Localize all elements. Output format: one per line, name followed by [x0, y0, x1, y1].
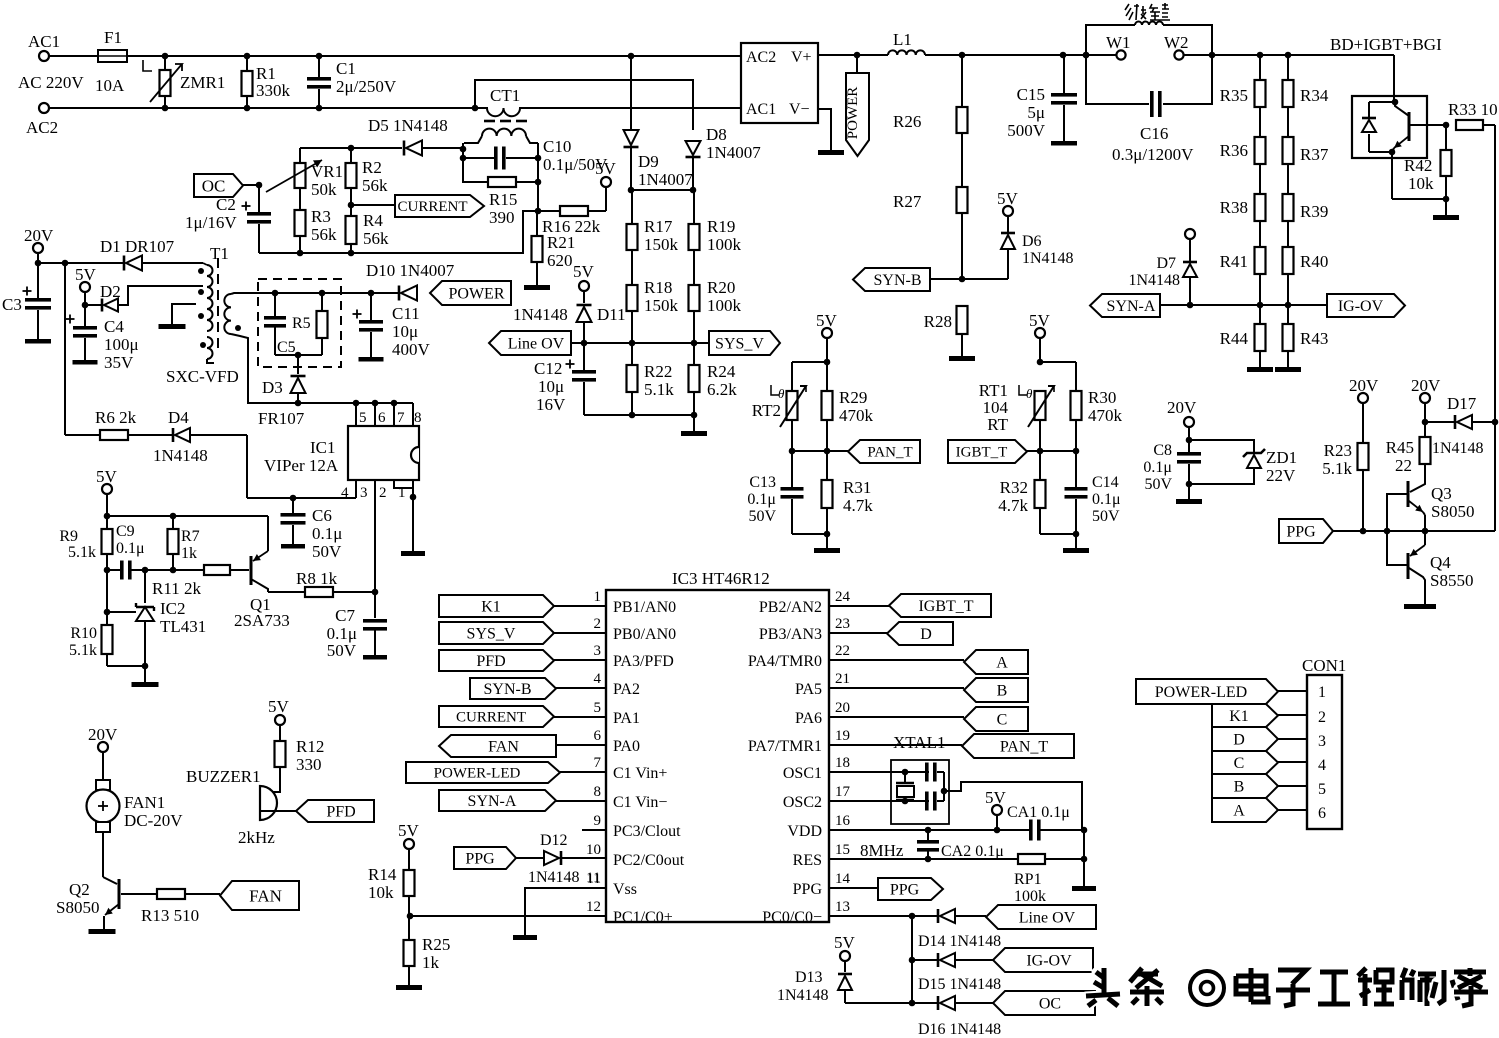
net label SYN-A	[1090, 294, 1160, 317]
resistor R31 4.7k	[822, 451, 874, 534]
resistor R32 4.7k	[998, 451, 1045, 534]
net label IGBT_T (RT1)	[948, 440, 1027, 463]
net label CURRENT	[351, 195, 484, 217]
svg-text:5V: 5V	[1029, 311, 1051, 330]
wire RT2 top	[792, 359, 830, 391]
net label POWER	[430, 281, 511, 305]
svg-text:5V: 5V	[595, 159, 617, 178]
capacitor C8 0.1u 50V	[1143, 437, 1201, 493]
net label D (CON1)	[1212, 727, 1307, 751]
resistor R26	[893, 55, 968, 133]
svg-text:D1 DR107: D1 DR107	[100, 237, 175, 256]
svg-text:C6: C6	[312, 506, 332, 525]
svg-text:D14 1N4148: D14 1N4148	[918, 933, 1001, 950]
svg-text:R23: R23	[1324, 441, 1352, 460]
resistor R33 10	[1443, 100, 1498, 130]
resistor R13 510	[121, 889, 220, 925]
net label Line OV (D14)	[986, 905, 1096, 929]
resistor R11 2k	[145, 565, 249, 598]
svg-text:Line OV: Line OV	[1019, 909, 1076, 926]
svg-text:R12: R12	[296, 737, 324, 756]
svg-text:C1 Vin−: C1 Vin−	[613, 794, 667, 811]
svg-text:W2: W2	[1164, 33, 1189, 52]
svg-text:POWER: POWER	[845, 87, 861, 140]
resistor R40	[1283, 221, 1329, 305]
svg-text:10μ: 10μ	[392, 322, 418, 341]
svg-text:PA4/TMR0: PA4/TMR0	[748, 653, 822, 670]
transformer T1 secondary	[224, 293, 248, 403]
wire PPG row	[1333, 125, 1495, 534]
capacitor C5	[264, 293, 296, 356]
svg-text:CA2 0.1μ: CA2 0.1μ	[941, 843, 1004, 860]
svg-text:R19: R19	[707, 217, 735, 236]
svg-text:SYS_V: SYS_V	[715, 335, 764, 352]
svg-text:C13: C13	[749, 474, 776, 491]
net label SYN-B (R28)	[853, 268, 930, 291]
svg-text:OC: OC	[1039, 995, 1061, 1012]
ground (Q2)	[89, 929, 116, 934]
svg-text:R37: R37	[1300, 145, 1329, 164]
svg-text:50V: 50V	[748, 508, 776, 525]
svg-text:330k: 330k	[256, 81, 291, 100]
svg-text:C2: C2	[216, 195, 236, 214]
wire RT1 bottom	[1040, 531, 1079, 548]
wire SYN-A row	[1160, 302, 1327, 309]
ground (R44)	[1247, 367, 1273, 372]
svg-text:R3: R3	[311, 207, 331, 226]
resistor R3 56k	[295, 207, 338, 253]
wire RT2 bottom	[792, 531, 830, 548]
svg-text:4: 4	[1318, 757, 1326, 774]
svg-text:R7: R7	[181, 528, 200, 545]
svg-text:PA1: PA1	[613, 710, 640, 727]
resistor R24 6.2k	[689, 340, 738, 415]
svg-text:RP1: RP1	[1014, 871, 1042, 888]
svg-text:D: D	[920, 626, 932, 643]
svg-text:PA7/TMR1: PA7/TMR1	[748, 738, 822, 755]
ground (R28)	[949, 356, 975, 361]
svg-text:16: 16	[835, 813, 851, 829]
svg-text:PC0/C0−: PC0/C0−	[762, 909, 822, 926]
ground (R21)	[524, 285, 550, 290]
svg-text:R42: R42	[1404, 156, 1432, 175]
svg-text:PB3/AN3: PB3/AN3	[759, 626, 822, 643]
svg-text:4.7k: 4.7k	[998, 496, 1028, 515]
svg-text:22V: 22V	[1266, 466, 1296, 485]
terminal W2	[1164, 33, 1189, 60]
svg-text:AC1: AC1	[28, 32, 60, 51]
svg-text:PA6: PA6	[795, 710, 822, 727]
net label POWER (V+)	[845, 52, 869, 156]
varistor ZMR1	[143, 56, 225, 108]
svg-text:2: 2	[594, 616, 602, 632]
wire rail to IGBT	[1212, 52, 1394, 96]
resistor R7 1k	[168, 516, 200, 573]
svg-text:D9: D9	[638, 152, 659, 171]
svg-text:3: 3	[594, 643, 602, 659]
resistor R43	[1283, 302, 1329, 367]
svg-text:XTAL1: XTAL1	[893, 733, 945, 752]
svg-text:D10 1N4007: D10 1N4007	[366, 261, 455, 280]
buzzer BUZZER1 2kHz	[186, 767, 296, 847]
capacitor C9 0.1u	[104, 523, 149, 580]
svg-text:D15 1N4148: D15 1N4148	[918, 976, 1001, 993]
IC3 right pin names	[748, 599, 823, 926]
ground (C8)	[1176, 499, 1202, 504]
wire 5V row	[104, 513, 268, 520]
svg-text:4.7k: 4.7k	[843, 496, 873, 515]
svg-text:22: 22	[1395, 456, 1412, 475]
heating coil (xianpan) box	[1083, 22, 1216, 105]
wire Line OV row	[571, 340, 709, 347]
svg-text:5V: 5V	[834, 933, 856, 952]
terminal 20V (FAN1)	[88, 725, 118, 782]
wire AC2 lower rail	[49, 105, 741, 112]
diode D6 1N4148	[1001, 216, 1074, 267]
svg-text:PA3/PFD: PA3/PFD	[613, 653, 674, 670]
wire AC1 top rail	[49, 53, 741, 60]
svg-text:SYN-A: SYN-A	[1107, 298, 1156, 315]
snubber dashed box	[258, 279, 341, 367]
svg-text:8MHz: 8MHz	[860, 841, 904, 860]
diode D13 1N4148	[777, 969, 912, 1004]
svg-text:R40: R40	[1300, 252, 1328, 271]
terminal 20V (R45)	[1411, 376, 1441, 422]
resistor R44	[1220, 302, 1266, 367]
wire CT1 secondary left rail	[460, 143, 467, 183]
svg-text:0.1μ: 0.1μ	[116, 540, 145, 557]
svg-text:150k: 150k	[644, 235, 679, 254]
terminal W1	[1106, 33, 1131, 60]
svg-text:R26: R26	[893, 112, 921, 131]
net label IGBT_T (pin24)	[829, 594, 991, 617]
svg-text:SYN-B: SYN-B	[483, 681, 531, 698]
svg-text:BUZZER1: BUZZER1	[186, 767, 261, 786]
svg-text:100μ: 100μ	[104, 335, 139, 354]
svg-text:VR1: VR1	[311, 162, 343, 181]
svg-text:PAN_T: PAN_T	[1000, 738, 1049, 755]
resistor R16 22k	[538, 187, 606, 236]
svg-text:VIPer 12A: VIPer 12A	[264, 456, 339, 475]
svg-text:13: 13	[835, 899, 850, 915]
svg-text:S8050: S8050	[56, 898, 99, 917]
svg-text:PA5: PA5	[795, 681, 822, 698]
svg-text:500V: 500V	[1007, 121, 1046, 140]
svg-text:23: 23	[835, 616, 850, 632]
diode D3 FR107	[258, 376, 306, 428]
resistor R39	[1283, 164, 1329, 221]
ground (R25)	[396, 985, 422, 990]
resistor R17 150k	[627, 190, 679, 254]
svg-text:D3: D3	[262, 378, 283, 397]
net label PPG (driver)	[1279, 519, 1333, 543]
resistor R8 1k	[268, 569, 378, 597]
svg-text:620: 620	[547, 251, 573, 270]
svg-text:R6 2k: R6 2k	[95, 408, 137, 427]
svg-text:CURRENT: CURRENT	[397, 199, 467, 215]
terminal 5V (CA1)	[985, 788, 1007, 830]
svg-text:IG-OV: IG-OV	[1338, 298, 1384, 315]
svg-text:6: 6	[378, 410, 386, 426]
svg-text:4: 4	[594, 671, 602, 687]
net label PFD (buzzer)	[296, 800, 374, 822]
svg-text:D13: D13	[795, 969, 823, 986]
svg-text:R22: R22	[644, 362, 672, 381]
svg-text:20V: 20V	[88, 725, 118, 744]
svg-text:K1: K1	[1229, 708, 1249, 725]
svg-text:C: C	[1234, 755, 1245, 772]
svg-text:IC1: IC1	[310, 438, 336, 457]
inductor L1	[888, 30, 925, 55]
svg-text:20: 20	[835, 700, 850, 716]
svg-text:2kHz: 2kHz	[238, 828, 275, 847]
svg-text:24: 24	[835, 589, 851, 605]
wire snubber bottom	[275, 352, 322, 374]
terminal 5V (RT1)	[1029, 311, 1051, 362]
ground (R42)	[1433, 215, 1459, 220]
svg-text:Vss: Vss	[613, 881, 637, 898]
resistor R34	[1283, 55, 1329, 107]
net label A (pin22)	[829, 650, 1028, 674]
svg-text:50V: 50V	[1092, 508, 1120, 525]
resistor R12 330	[275, 737, 325, 774]
svg-text:5V: 5V	[985, 788, 1007, 807]
svg-text:Q3: Q3	[1431, 484, 1452, 503]
svg-text:CA1 0.1μ: CA1 0.1μ	[1007, 804, 1070, 821]
net label K1 (pin1)	[439, 595, 606, 617]
capacitor C10 0.1u/50V	[463, 137, 608, 174]
svg-text:RES: RES	[793, 852, 822, 869]
svg-text:R41: R41	[1220, 252, 1248, 271]
svg-text:5.1k: 5.1k	[68, 544, 96, 561]
wire D9-D8 junction	[628, 187, 697, 194]
connector CON1	[1302, 656, 1346, 829]
diode D1 DR107	[100, 237, 175, 271]
svg-text:35V: 35V	[104, 353, 134, 372]
net label PAN_T (pin19)	[829, 733, 1074, 758]
svg-text:C12: C12	[534, 359, 562, 378]
IC IC3 HT46R12	[606, 569, 829, 922]
net label SYS_V	[709, 331, 780, 355]
capacitor C15 5u 500V	[1007, 55, 1077, 146]
svg-text:R11 2k: R11 2k	[152, 579, 201, 598]
potentiometer VR1 50k	[266, 148, 343, 210]
net label FAN (pin6)	[439, 735, 606, 757]
transistor Q3 S8050	[1387, 481, 1474, 530]
IC3 left pin numbers	[586, 589, 602, 915]
terminal (D7)	[1185, 229, 1195, 239]
ground (IC2)	[132, 682, 159, 687]
svg-text:5.1k: 5.1k	[644, 380, 674, 399]
svg-text:1N4148: 1N4148	[777, 987, 829, 1004]
svg-text:5μ: 5μ	[1027, 103, 1045, 122]
wire pin12 row	[407, 913, 606, 920]
svg-text:R10: R10	[70, 625, 97, 642]
svg-text:C: C	[997, 711, 1008, 728]
svg-text:R20: R20	[707, 278, 735, 297]
svg-text:56k: 56k	[311, 225, 337, 244]
svg-text:C1 Vin+: C1 Vin+	[613, 765, 667, 782]
svg-text:CT1: CT1	[490, 86, 520, 105]
diode D11 1N4148	[513, 291, 626, 343]
svg-text:T1: T1	[210, 244, 229, 263]
net label K1 (CON1)	[1212, 704, 1307, 727]
svg-text:10A: 10A	[95, 76, 125, 95]
resistor R10 5.1k	[69, 570, 113, 666]
svg-text:Q2: Q2	[69, 880, 90, 899]
svg-text:0.1μ: 0.1μ	[1092, 491, 1121, 508]
bridge rectifier AC2/V+ AC1/V-	[741, 43, 818, 123]
wire pin11 Vss to ground	[513, 888, 606, 940]
svg-text:1N4007: 1N4007	[706, 143, 761, 162]
svg-text:5.1k: 5.1k	[69, 642, 97, 659]
svg-text:IC3 HT46R12: IC3 HT46R12	[672, 569, 770, 588]
svg-text:10k: 10k	[1408, 174, 1434, 193]
shunt regulator IC2 TL431	[104, 570, 207, 666]
svg-text:1N4148: 1N4148	[513, 305, 568, 324]
svg-text:R39: R39	[1300, 202, 1328, 221]
terminal 5V (R9)	[96, 467, 118, 516]
IC3 right pin numbers	[835, 589, 851, 915]
svg-text:56k: 56k	[362, 176, 388, 195]
svg-text:390: 390	[489, 208, 515, 227]
capacitor C13 0.1u 50V	[747, 451, 803, 534]
diode D17 1N4148	[1422, 394, 1499, 457]
svg-text:8: 8	[414, 410, 422, 426]
svg-text:D8: D8	[706, 125, 727, 144]
svg-text:PPG: PPG	[1286, 523, 1316, 540]
svg-text:18: 18	[835, 755, 850, 771]
svg-text:10μ: 10μ	[538, 377, 564, 396]
terminal 5V (D13)	[834, 933, 856, 972]
svg-text:56k: 56k	[363, 229, 389, 248]
svg-text:9: 9	[594, 813, 602, 829]
terminal AC1	[18, 32, 84, 92]
thermistor RT1 104RT	[979, 381, 1054, 434]
ground (RT1)	[1063, 548, 1089, 553]
resistor R45 22	[1386, 422, 1431, 481]
svg-text:15: 15	[835, 842, 850, 858]
diode D10 1N4007	[366, 261, 455, 301]
wire pin13 row	[829, 913, 938, 1007]
svg-text:ZMR1: ZMR1	[180, 73, 225, 92]
svg-text:S8050: S8050	[1431, 502, 1474, 521]
wire C8/ZD1 loop	[1189, 440, 1254, 499]
resistor R19 100k	[689, 190, 742, 254]
svg-text:ZD1: ZD1	[1266, 448, 1297, 467]
current transformer CT1	[464, 86, 538, 143]
svg-text:D5 1N4148: D5 1N4148	[368, 116, 448, 135]
svg-text:20V: 20V	[1411, 376, 1441, 395]
svg-text:12: 12	[586, 899, 601, 915]
svg-text:11: 11	[586, 870, 600, 886]
svg-text:150k: 150k	[644, 296, 679, 315]
terminal 5V (R12)	[268, 697, 290, 741]
wire CT1 secondary right rail	[535, 143, 542, 214]
svg-text:R15: R15	[489, 190, 517, 209]
svg-text:R14: R14	[368, 865, 397, 884]
svg-text:R18: R18	[644, 278, 672, 297]
svg-text:R33 10: R33 10	[1448, 100, 1498, 119]
wire divider gnd row	[584, 412, 697, 431]
label xianpan (Chinese)	[1125, 3, 1170, 20]
svg-text:SYN-B: SYN-B	[873, 272, 921, 289]
svg-text:K1: K1	[481, 598, 501, 615]
svg-text:θ: θ	[1026, 386, 1033, 401]
svg-text:B: B	[997, 682, 1008, 699]
svg-text:D11: D11	[597, 305, 626, 324]
resistor RP1 100k	[829, 854, 1087, 905]
svg-text:W1: W1	[1106, 33, 1131, 52]
svg-text:1: 1	[594, 589, 602, 605]
net label D (pin23)	[829, 622, 953, 645]
resistor R23 5.1k	[1322, 441, 1368, 530]
svg-text:IGBT_T: IGBT_T	[918, 598, 973, 615]
svg-text:5V: 5V	[75, 265, 97, 284]
svg-text:1k: 1k	[181, 545, 197, 562]
svg-text:Line OV: Line OV	[508, 335, 565, 352]
diode D8 1N4007	[686, 125, 762, 190]
capacitor C6 0.1u 50V	[281, 498, 343, 561]
svg-text:R43: R43	[1300, 329, 1328, 348]
svg-text:OSC2: OSC2	[783, 794, 822, 811]
svg-text:Q4: Q4	[1430, 553, 1451, 572]
wire pin9 stub	[582, 829, 606, 831]
diode D7 1N4148	[1128, 239, 1197, 305]
svg-text:C11: C11	[392, 304, 420, 323]
svg-text:CURRENT: CURRENT	[456, 710, 526, 726]
resistor R30 470k	[1071, 388, 1123, 451]
svg-text:D: D	[1233, 731, 1245, 748]
svg-text:OC: OC	[202, 176, 226, 195]
svg-text:0.1μ: 0.1μ	[747, 491, 776, 508]
net label PFD (pin3)	[439, 650, 606, 671]
svg-text:D12: D12	[540, 832, 568, 849]
svg-text:V−: V−	[789, 101, 810, 118]
resistor R18 150k	[627, 250, 679, 343]
svg-text:R25: R25	[422, 935, 450, 954]
svg-text:1N4148: 1N4148	[1432, 440, 1484, 457]
resistor R28	[924, 306, 968, 356]
ground (Q4)	[1404, 604, 1436, 609]
svg-text:IG-OV: IG-OV	[1026, 952, 1072, 969]
net label SYN-B (pin4)	[470, 678, 606, 699]
net label IG-OV (D15)	[993, 948, 1093, 972]
svg-text:100k: 100k	[1014, 888, 1046, 905]
diode D9 1N4007	[624, 130, 694, 190]
capacitor CA1 0.1u	[1007, 804, 1070, 841]
svg-text:R17: R17	[644, 217, 673, 236]
svg-text:SXC-VFD: SXC-VFD	[166, 367, 239, 386]
svg-text:R35: R35	[1220, 86, 1248, 105]
wire IC1 pin4	[247, 435, 356, 501]
wire RT1 top	[1037, 359, 1076, 391]
ground (RT2)	[814, 548, 840, 553]
svg-text:R13 510: R13 510	[141, 906, 199, 925]
svg-text:5V: 5V	[268, 697, 290, 716]
svg-text:CON1: CON1	[1302, 656, 1346, 675]
svg-text:SYS_V: SYS_V	[467, 625, 516, 642]
svg-text:C4: C4	[104, 317, 124, 336]
svg-text:50V: 50V	[1144, 476, 1172, 493]
wire AC1 loop to D8	[475, 80, 693, 130]
resistor R22 5.1k	[627, 340, 675, 415]
zener ZD1 22V	[1243, 448, 1297, 485]
svg-text:3: 3	[360, 485, 368, 501]
svg-text:0.1μ: 0.1μ	[1143, 459, 1172, 476]
wire IC1 pin3	[374, 480, 376, 618]
resistor R37	[1283, 107, 1329, 164]
